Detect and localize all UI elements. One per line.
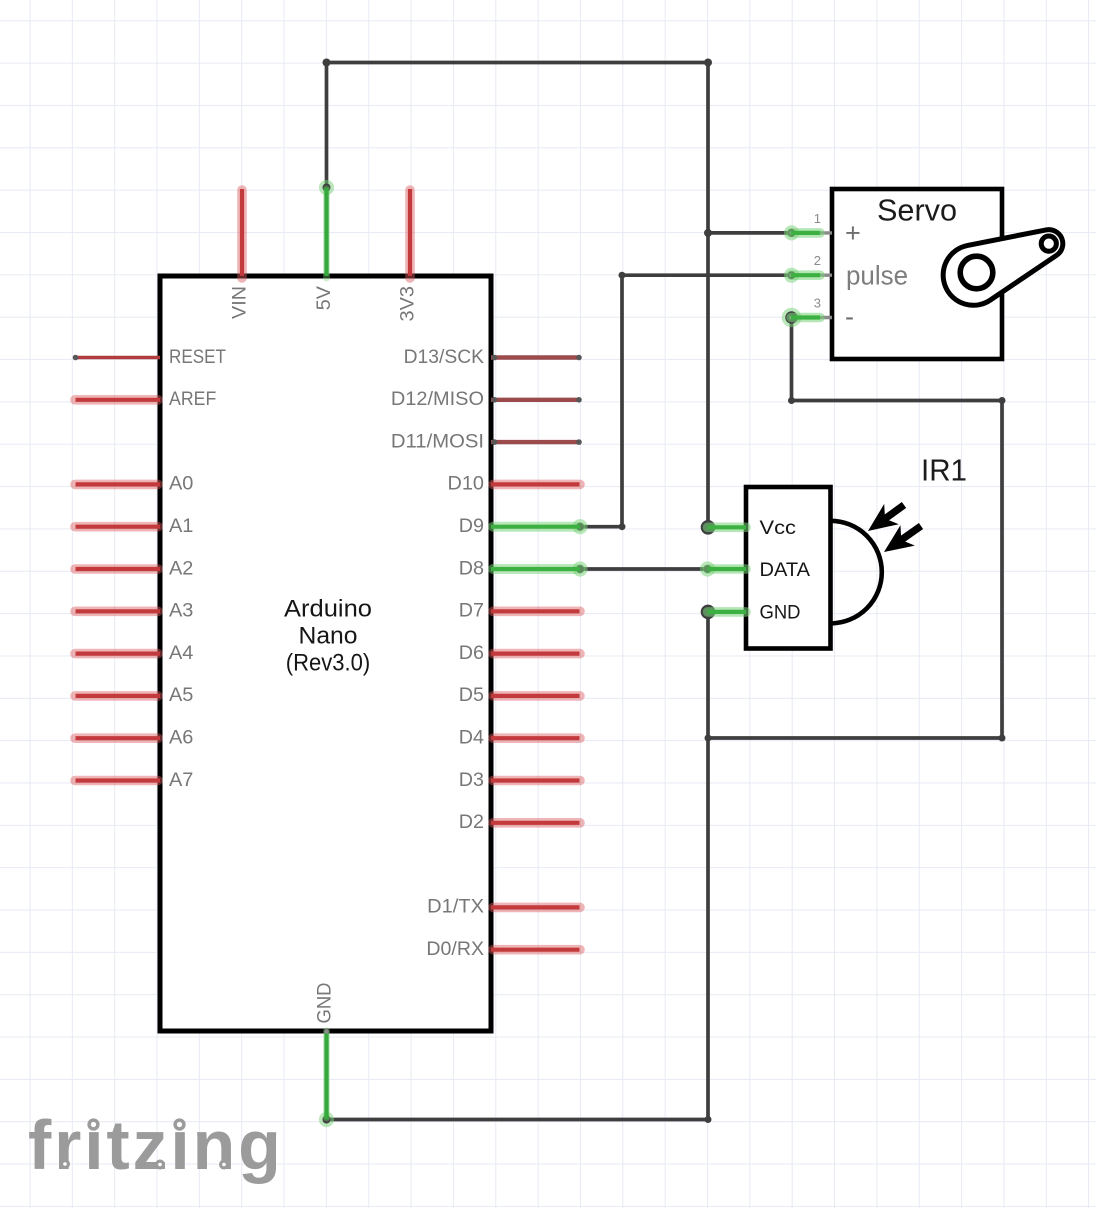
servo pin label plus [845, 218, 861, 248]
wire to servo pulse pin [622, 273, 792, 277]
svg-text:1: 1 [814, 211, 821, 226]
servo pin 3 leg [790, 296, 833, 318]
wire down to IR1 Vcc [706, 233, 710, 527]
svg-text:A0: A0 [169, 474, 193, 495]
servo motor part body [832, 189, 1002, 359]
pin VIN (Arduino top) [230, 189, 251, 319]
svg-text:A7: A7 [169, 770, 193, 791]
junction at IR1 DATA pin [700, 561, 715, 576]
junction at D9 pin [572, 519, 587, 534]
junction 5V top left corner [323, 59, 331, 67]
servo pin 1 leg [790, 211, 833, 233]
svg-text:A6: A6 [169, 728, 193, 749]
pin D9 (Arduino right) [459, 516, 580, 537]
svg-text:A5: A5 [169, 685, 193, 706]
Arduino Nano U1 body [160, 276, 491, 1031]
svg-text:Servo: Servo [877, 193, 957, 228]
svg-text:D1/TX: D1/TX [427, 897, 484, 918]
pin A4 (Arduino left) [75, 643, 194, 664]
pin 3V3 (Arduino top) [398, 189, 419, 322]
pin D5 (Arduino right) [459, 685, 580, 706]
svg-text:pulse: pulse [846, 261, 908, 291]
servo horn icon [943, 230, 1063, 306]
svg-text:D10: D10 [448, 474, 485, 495]
servo pin 2 leg [790, 253, 833, 275]
pin D7 (Arduino right) [459, 601, 580, 622]
svg-text:D2: D2 [459, 812, 484, 833]
wire servo minus down [790, 318, 794, 401]
IR1 light arrow 1 [868, 504, 904, 531]
pin A0 (Arduino left) [75, 474, 193, 495]
pin A2 (Arduino left) [75, 558, 193, 579]
svg-text:IR1: IR1 [921, 453, 967, 488]
junction at 5V pin [319, 180, 334, 195]
pin RESET (Arduino left) [73, 347, 227, 368]
pin D0/RX (Arduino right) [426, 939, 580, 960]
pin AREF (Arduino left) [75, 389, 216, 410]
svg-text:(Rev3.0): (Rev3.0) [286, 650, 371, 677]
pin D3 (Arduino right) [459, 770, 580, 791]
IR sensor IR1 body [746, 487, 831, 649]
servo pin label pulse [846, 261, 908, 291]
bend corner of minus wire [788, 397, 795, 404]
IR1 pin DATA leg [708, 560, 811, 581]
wire minus right riser [1000, 401, 1004, 739]
svg-text:3: 3 [814, 296, 821, 311]
IR1 reference label [921, 453, 967, 488]
svg-text:A2: A2 [169, 558, 193, 579]
bend of pulse wire [619, 272, 626, 279]
IR1 dome lens [831, 521, 882, 624]
pin 5V (Arduino top) [314, 188, 335, 311]
svg-text:D0/RX: D0/RX [426, 939, 484, 960]
bend of D9 wire [619, 523, 626, 530]
pin D13/SCK (Arduino right) [404, 347, 582, 368]
svg-text:D5: D5 [459, 685, 484, 706]
pin A6 (Arduino left) [75, 728, 193, 749]
svg-text:D6: D6 [459, 643, 484, 664]
svg-text:A1: A1 [169, 516, 193, 537]
svg-text:A4: A4 [169, 643, 194, 664]
pin D8 (Arduino right) [459, 558, 580, 579]
svg-text:D8: D8 [459, 558, 484, 579]
junction at D8 pin [572, 561, 587, 576]
svg-text:D13/SCK: D13/SCK [404, 347, 485, 368]
pin D10 (Arduino right) [448, 474, 581, 495]
svg-text:D12/MISO: D12/MISO [391, 389, 484, 410]
wire gnd bottom horizontal [327, 1118, 709, 1122]
pin A1 (Arduino left) [75, 516, 193, 537]
svg-text:3V3: 3V3 [398, 286, 419, 322]
bend bottom corner of minus wire [999, 735, 1006, 742]
svg-text:+: + [845, 218, 861, 248]
pin D12/MISO (Arduino right) [391, 389, 582, 410]
wire D8 to DATA [580, 567, 708, 571]
Arduino Nano title label [284, 596, 372, 677]
svg-text:D9: D9 [459, 516, 484, 537]
pin D4 (Arduino right) [459, 728, 580, 749]
wire minus horizontal [792, 399, 1003, 403]
IR1 light arrow 2 [884, 525, 921, 552]
pin A7 (Arduino left) [75, 770, 193, 791]
junction at GND pin [319, 1112, 334, 1127]
svg-text:Vcc: Vcc [760, 518, 797, 539]
wire 5V pin up [325, 63, 329, 188]
pin D11/MOSI (Arduino right) [391, 431, 582, 452]
servo title label [877, 193, 957, 228]
svg-text:RESET: RESET [169, 347, 226, 368]
IR1 pin GND leg [708, 603, 801, 624]
svg-text:-: - [845, 302, 854, 332]
wire to servo + pin [708, 231, 792, 235]
pin D6 (Arduino right) [459, 643, 580, 664]
fritzing logo [28, 1106, 284, 1184]
svg-text:DATA: DATA [760, 560, 811, 581]
junction 5V top right corner [704, 59, 712, 67]
wire 5V top horizontal [327, 61, 709, 65]
junction at servo + pin [784, 225, 799, 240]
svg-text:VIN: VIN [230, 286, 251, 319]
svg-text:D3: D3 [459, 770, 484, 791]
pin D1/TX (Arduino right) [427, 897, 580, 918]
svg-text:2: 2 [814, 253, 821, 268]
junction minus wire to gnd net [705, 735, 712, 742]
pin A3 (Arduino left) [75, 601, 193, 622]
junction servo + branch [704, 229, 712, 237]
svg-text:D7: D7 [459, 601, 484, 622]
svg-text:GND: GND [760, 603, 801, 624]
svg-text:5V: 5V [314, 286, 335, 311]
bend corner of gnd wire [705, 1116, 712, 1123]
IR1 pin Vcc leg [708, 518, 797, 539]
wire down to servo + [706, 63, 710, 233]
svg-text:frıtzıng: frıtzıng [28, 1106, 284, 1184]
wire IR1 GND down [706, 612, 710, 1120]
pin GND (Arduino bottom) [315, 983, 336, 1120]
wire D9 stub [580, 525, 622, 529]
svg-text:Nano: Nano [299, 623, 358, 650]
wire D9 riser [620, 275, 624, 527]
svg-text:AREF: AREF [169, 389, 216, 410]
junction at servo pulse pin [784, 268, 799, 283]
junction at servo - pin [782, 308, 802, 328]
pin D2 (Arduino right) [459, 812, 580, 833]
wire minus to gnd net [708, 736, 1002, 740]
junction at IR1 Vcc pin [701, 520, 716, 535]
svg-text:GND: GND [315, 983, 336, 1024]
pin A5 (Arduino left) [75, 685, 193, 706]
servo pin label minus [845, 302, 854, 332]
svg-text:D11/MOSI: D11/MOSI [391, 431, 484, 452]
bend right corner of minus wire [999, 397, 1006, 404]
svg-text:Arduino: Arduino [284, 596, 372, 623]
junction at IR1 GND pin [701, 605, 716, 620]
svg-text:D4: D4 [459, 728, 485, 749]
svg-text:A3: A3 [169, 601, 193, 622]
